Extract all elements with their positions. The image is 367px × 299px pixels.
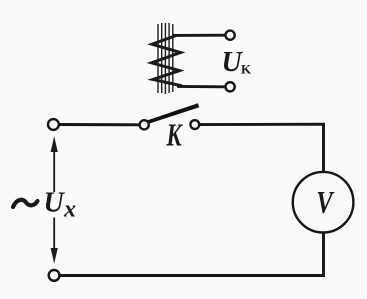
svg-text:U: U — [44, 188, 66, 219]
svg-text:K: K — [166, 118, 184, 154]
svg-text:K: K — [241, 62, 252, 77]
svg-text:V: V — [316, 185, 335, 221]
svg-text:x: x — [63, 197, 76, 223]
